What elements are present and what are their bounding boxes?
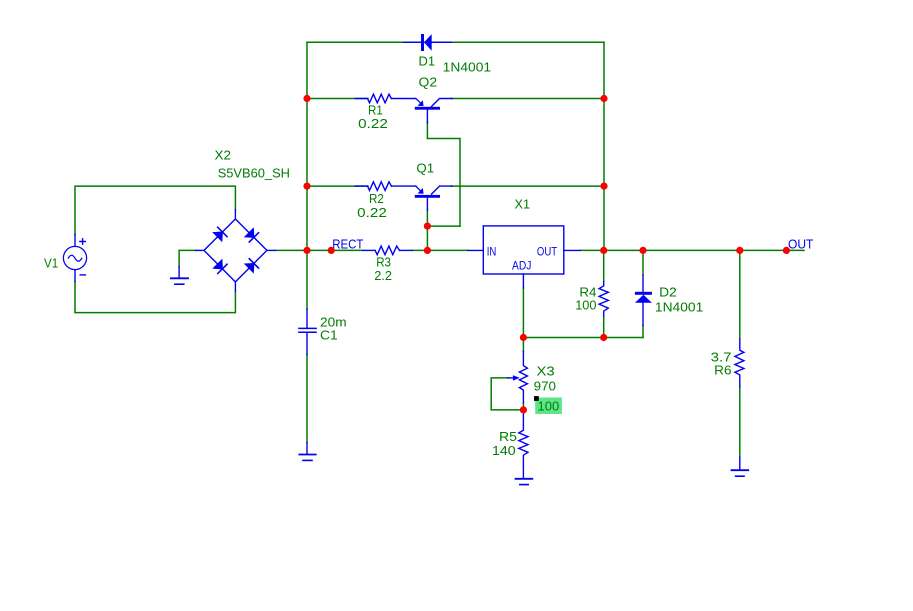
svg-text:RECT: RECT (332, 237, 363, 252)
svg-text:C1: C1 (320, 328, 338, 343)
wire bridge left to ground (179, 250, 195, 266)
bridge diode lower-right (245, 259, 259, 273)
wire X3 top lead (522, 338, 524, 352)
ground (C1) (299, 443, 315, 461)
junction node left rail Q1 row (303, 183, 310, 190)
wire right rail vertical (603, 42, 605, 250)
wire ADJ bottom row (523, 337, 643, 339)
junction node RECT left rail (303, 247, 310, 254)
voltage source V1 (63, 235, 86, 282)
resistor R2 (355, 182, 416, 191)
svg-text:X1: X1 (515, 197, 531, 212)
junction node OUT label anchor (783, 247, 790, 254)
junction node R4 bottom (600, 334, 607, 341)
bridge diode upper-left (213, 227, 227, 241)
svg-text:D2: D2 (659, 285, 677, 300)
svg-text:V1: V1 (44, 256, 58, 271)
junction node ADJ bottom (520, 334, 527, 341)
svg-text:OUT: OUT (537, 244, 558, 258)
regulator X1 box (468, 226, 580, 288)
svg-text:R2: R2 (369, 191, 384, 206)
wire Q2 emitter row (307, 98, 368, 100)
wire R6 top lead (739, 250, 741, 339)
junction node X3 wiper bottom (520, 406, 527, 413)
marker black square (534, 396, 539, 401)
wire D2 lower lead (642, 326, 644, 338)
potentiometer X3 wiper arrow (508, 375, 520, 380)
wire Q2 collector to right rail (451, 98, 604, 100)
svg-text:X3: X3 (537, 364, 555, 379)
wire X1 OUT to out rail (580, 249, 804, 251)
wire Q1 base lower (426, 210, 428, 226)
svg-text:Q1: Q1 (416, 161, 434, 176)
wire D2 upper lead (642, 250, 644, 275)
ground (R6) (732, 457, 749, 476)
wire X3 wiper loop (491, 378, 523, 410)
wire Q1 collector to right rail (451, 185, 604, 187)
junction node right rail Q2 row (600, 95, 607, 102)
wire Q1 emitter row (307, 185, 368, 187)
svg-text:1N4001: 1N4001 (443, 60, 491, 75)
resistor R5 (519, 410, 528, 478)
wire top rail horizontal (307, 41, 604, 43)
wire X3 bottom lead (522, 403, 524, 410)
diode D1 (403, 34, 451, 51)
wire bridge right to rail (276, 249, 308, 251)
bridge diode lower-left (213, 260, 227, 274)
junction node RECT label anchor (328, 247, 335, 254)
svg-text:R6: R6 (714, 362, 731, 377)
transistor Q2 (415, 98, 452, 122)
highlight box 100 (535, 398, 562, 415)
wire R3 to X1 IN (412, 249, 468, 251)
wire V1 bottom loop (75, 282, 235, 313)
svg-text:970: 970 (534, 378, 556, 393)
wire C1 lower to ground (306, 355, 308, 443)
capacitor C1 (299, 309, 316, 355)
wire V1 top loop (75, 186, 235, 234)
junction node D2 top (639, 247, 646, 254)
resistor R4 (599, 282, 608, 317)
wire Q2 base jog down (427, 122, 460, 226)
svg-text:1N4001: 1N4001 (655, 299, 703, 314)
svg-text:IN: IN (487, 244, 497, 258)
junction node R6 top (736, 247, 743, 254)
svg-text:Q2: Q2 (419, 75, 438, 90)
wire RECT row (307, 249, 363, 251)
wire base node to Q1 base (427, 226, 460, 250)
diode D2 (635, 275, 652, 326)
junction node R3 right (424, 247, 431, 254)
wire left rail vertical (306, 42, 308, 309)
ground (bridge) (171, 267, 188, 285)
resistor R3 (363, 246, 412, 255)
junction node left rail Q2 row (303, 95, 310, 102)
wire R4 upper lead (603, 250, 605, 281)
svg-text:OUT: OUT (788, 236, 813, 251)
resistor R6 (735, 339, 744, 387)
transistor Q1 (415, 186, 452, 210)
svg-text:R5: R5 (499, 429, 517, 444)
svg-text:100: 100 (575, 297, 596, 312)
svg-text:S5VB60_SH: S5VB60_SH (218, 165, 290, 180)
junction node X1 OUT (600, 247, 607, 254)
junction node base chain (424, 223, 431, 230)
resistor R1 (355, 94, 416, 103)
potentiometer X3 (519, 352, 527, 404)
svg-text:100: 100 (538, 399, 560, 414)
wire R4 lower lead (603, 316, 605, 338)
bridge rectifier X2 diamond (196, 210, 276, 291)
svg-text:140: 140 (492, 443, 516, 458)
ground (R5) (516, 479, 533, 485)
wire R6 bottom lead (739, 387, 741, 457)
svg-text:2.2: 2.2 (374, 268, 392, 283)
svg-text:X2: X2 (215, 148, 231, 163)
junction node right rail Q1 row (600, 183, 607, 190)
wire X1 ADJ down (522, 288, 524, 338)
svg-text:0.22: 0.22 (357, 205, 387, 220)
svg-text:ADJ: ADJ (512, 258, 531, 272)
svg-text:D1: D1 (419, 54, 436, 69)
bridge diode upper-right (245, 228, 259, 242)
svg-text:0.22: 0.22 (358, 116, 388, 131)
